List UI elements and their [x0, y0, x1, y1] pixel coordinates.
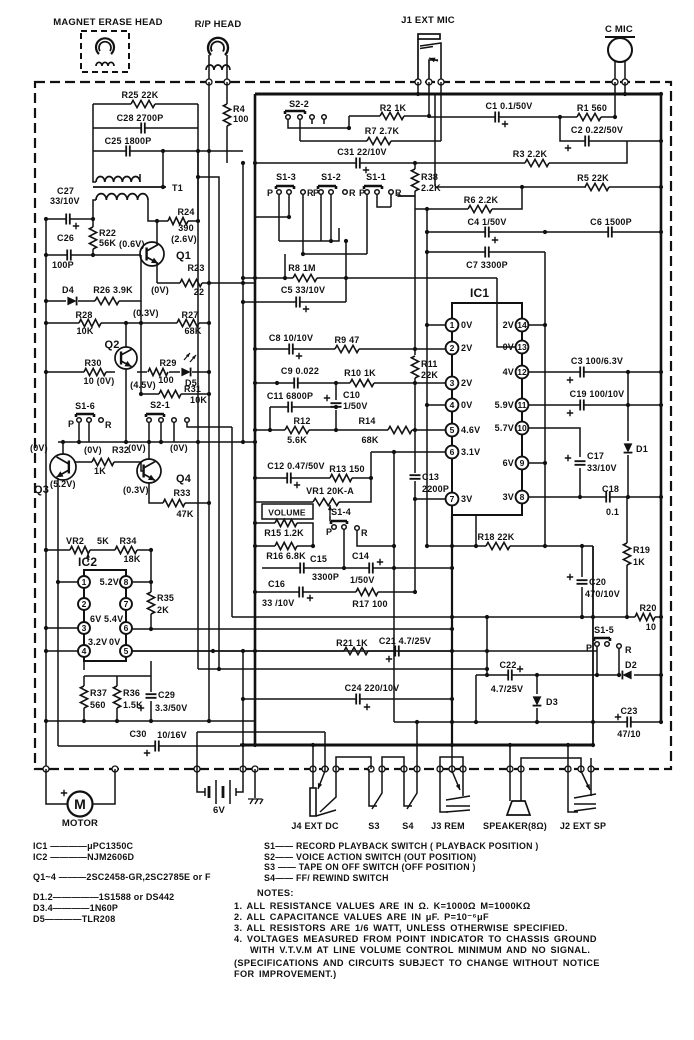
- resistor R20: [635, 613, 655, 620]
- node C20 junctions: [580, 544, 584, 548]
- capacitor C15: [300, 563, 304, 574]
- switch S1-4: [331, 521, 347, 524]
- transformer T1 lower winding: [96, 194, 148, 200]
- pin IC1-13: [516, 341, 529, 354]
- wire R4 lead: [226, 82, 228, 163]
- potentiometer VR1: [313, 498, 339, 505]
- svg-text:R: R: [361, 528, 368, 538]
- wire x219 vertical: [198, 177, 219, 669]
- svg-text:VR2: VR2: [66, 536, 84, 546]
- svg-text:IC2: IC2: [78, 555, 97, 569]
- wire R5 feed: [434, 94, 436, 186]
- node C13 junctions: [413, 497, 417, 501]
- pin IC1-4: [446, 399, 459, 412]
- IC2 box: [84, 570, 126, 661]
- svg-text:R32: R32: [112, 445, 129, 455]
- svg-text:R/P HEAD: R/P HEAD: [195, 19, 242, 30]
- svg-text:11: 11: [518, 400, 527, 410]
- node C26 junctions: [44, 253, 48, 257]
- svg-text:5: 5: [124, 646, 129, 656]
- svg-text:68K: 68K: [184, 326, 201, 336]
- node R18 junctions: [450, 544, 454, 548]
- resistor R2: [380, 112, 404, 119]
- svg-text:1K: 1K: [633, 557, 645, 567]
- svg-text:1K: 1K: [94, 466, 106, 476]
- wire VR1 row: [255, 478, 371, 502]
- wire C11 row: [270, 406, 336, 408]
- wire x427 vertical: [426, 209, 428, 452]
- wire C20 leads: [581, 546, 583, 617]
- capacitor C5: [296, 297, 300, 308]
- pin IC1-12: [516, 366, 529, 379]
- svg-text:3300P: 3300P: [312, 572, 339, 582]
- resistor R9: [335, 345, 359, 352]
- svg-text:6V: 6V: [503, 458, 514, 468]
- ground symbol: [254, 769, 256, 798]
- wire S2-2 wiring: [288, 116, 349, 141]
- microphone C MIC: [605, 36, 635, 38]
- erase head symbol: [96, 38, 114, 54]
- svg-text:Q1: Q1: [176, 250, 191, 262]
- pin IC2-6: [120, 622, 132, 634]
- resistor R30: [84, 368, 106, 375]
- svg-text:2200P: 2200P: [422, 484, 449, 494]
- chassis dashed border: [35, 82, 671, 769]
- node R1 junctions: [558, 115, 562, 119]
- svg-text:R6 2.2K: R6 2.2K: [464, 195, 499, 205]
- svg-text:5.2V: 5.2V: [100, 577, 119, 587]
- node C19 junctions: [659, 403, 663, 407]
- wire C28 row: [93, 127, 198, 129]
- LED D5: [181, 368, 190, 377]
- capacitor C21: [395, 646, 399, 657]
- svg-text:IC1 ————μPC1350C: IC1 ————μPC1350C: [33, 841, 134, 851]
- resistor R7: [367, 137, 391, 144]
- svg-text:P: P: [313, 188, 319, 198]
- wire pin14 feed: [528, 324, 545, 326]
- wire x243 vertical: [242, 163, 244, 769]
- svg-text:R27: R27: [181, 310, 198, 320]
- pin IC1-7: [446, 493, 459, 506]
- wire R7 row: [300, 140, 441, 142]
- wire C25 row: [93, 150, 243, 152]
- wire IC2 pin3 left: [46, 627, 78, 629]
- svg-text:C13: C13: [422, 472, 439, 482]
- node C9 junctions: [253, 381, 257, 385]
- node R31 junctions: [139, 392, 143, 396]
- svg-text:(0V): (0V): [151, 285, 169, 295]
- wire x141 vertical: [140, 301, 142, 394]
- VOLUME box: [262, 504, 313, 519]
- transistor Q4: [137, 459, 161, 483]
- svg-text:C10: C10: [343, 390, 360, 400]
- svg-text:6: 6: [450, 447, 455, 457]
- wire x209 vertical: [208, 151, 210, 721]
- node border crossings C MIC: [612, 79, 618, 85]
- wire J1 ring down: [440, 82, 442, 141]
- svg-text:R30: R30: [84, 358, 101, 368]
- node C3 junctions: [659, 370, 663, 374]
- svg-text:100: 100: [158, 375, 174, 385]
- svg-text:2V: 2V: [461, 343, 472, 353]
- resistor R13: [330, 474, 352, 481]
- node R5 junctions: [659, 185, 663, 189]
- node R12 junctions: [268, 428, 272, 432]
- svg-text:6V: 6V: [90, 614, 101, 624]
- svg-text:68K: 68K: [361, 435, 378, 445]
- svg-text:(SPECIFICATIONS AND CIRCUITS: (SPECIFICATIONS AND CIRCUITS SUBJECT TO …: [234, 958, 600, 968]
- node R20 junctions: [450, 615, 454, 619]
- resistor R28: [79, 319, 101, 326]
- svg-text:C24 220/10V: C24 220/10V: [345, 683, 400, 693]
- wire R1 row: [560, 82, 615, 117]
- node pin4 junction: [425, 403, 429, 407]
- svg-text:R1 560: R1 560: [577, 103, 607, 113]
- magnet erase head box: [81, 31, 129, 72]
- svg-text:(0V): (0V): [128, 443, 146, 453]
- svg-text:C22: C22: [499, 660, 516, 670]
- wire pin13 feed: [497, 278, 522, 347]
- node block bottom junctions: [44, 719, 48, 723]
- svg-text:10: 10: [646, 622, 656, 632]
- wire C2 row: [560, 117, 661, 141]
- wire S1-5 stems: [597, 646, 619, 675]
- node VR2 junctions: [44, 548, 48, 552]
- wire pin10 C17: [528, 428, 580, 457]
- capacitor C31: [356, 158, 360, 169]
- svg-text:7: 7: [450, 494, 455, 504]
- wire R18 row: [427, 515, 593, 546]
- svg-text:10 (0V): 10 (0V): [84, 376, 115, 386]
- resistor R12: [285, 426, 309, 433]
- node R15 junctions: [253, 521, 257, 525]
- svg-text:C15: C15: [310, 554, 327, 564]
- wire R31 row: [141, 393, 209, 395]
- resistor R29: [148, 368, 168, 375]
- capacitor C30: [155, 741, 159, 752]
- wire C16 row: [255, 591, 415, 593]
- svg-text:(0.6V): (0.6V): [119, 239, 145, 249]
- wire R6 row: [415, 187, 522, 209]
- wire C23 row: [394, 721, 661, 723]
- wire D1 vertical: [627, 372, 629, 497]
- wire pin7 feed: [415, 498, 446, 500]
- svg-text:P: P: [326, 527, 332, 537]
- wire C26 row: [46, 254, 141, 256]
- svg-text:R7 2.7K: R7 2.7K: [365, 126, 400, 136]
- switch S4 symbol: [404, 769, 412, 806]
- svg-text:C11 6800P: C11 6800P: [267, 391, 313, 401]
- svg-text:R8 1M: R8 1M: [288, 263, 316, 273]
- svg-text:Q1~4 ———2SC2458-GR,2SC2785E or: Q1~4 ———2SC2458-GR,2SC2785E or F: [33, 872, 211, 882]
- pin IC1-3: [446, 377, 459, 390]
- svg-text:S1-4: S1-4: [331, 507, 351, 517]
- wire x427 lower vertical: [426, 452, 428, 546]
- node border bottom crossings: [43, 766, 49, 772]
- node R23 junctions: [207, 281, 211, 285]
- capacitor C20: [577, 580, 588, 584]
- switch S1-1: [364, 186, 382, 189]
- wire R25 row: [93, 103, 198, 105]
- wire R15 row: [255, 523, 313, 546]
- wire x394 vertical: [393, 452, 395, 722]
- capacitor C25: [126, 146, 130, 157]
- wire VR2 row: [46, 549, 151, 551]
- svg-text:0V: 0V: [461, 320, 472, 330]
- svg-text:R3 2.2K: R3 2.2K: [513, 149, 548, 159]
- svg-text:S1-2: S1-2: [321, 172, 341, 182]
- wire R24 row: [157, 220, 198, 222]
- resistor R6: [468, 205, 492, 212]
- svg-text:8: 8: [124, 577, 129, 587]
- svg-text:4.6V: 4.6V: [461, 425, 480, 435]
- node border crossings J1: [415, 79, 421, 85]
- wire D3 leads: [536, 675, 538, 722]
- pin IC2-3: [78, 622, 90, 634]
- node R21 junctions: [253, 649, 257, 653]
- svg-text:R38: R38: [421, 172, 438, 182]
- svg-text:C6 1500P: C6 1500P: [590, 217, 632, 227]
- wire C3 row: [528, 371, 661, 373]
- svg-text:S3 —— TAPE ON OFF SWITCH (: S3 —— TAPE ON OFF SWITCH (OFF POSITION ): [264, 862, 476, 872]
- svg-text:12: 12: [517, 367, 527, 377]
- resistor R33: [163, 499, 185, 506]
- node R30 junction: [44, 370, 48, 374]
- svg-text:5.9V: 5.9V: [495, 400, 514, 410]
- capacitor C28: [141, 123, 145, 134]
- svg-text:C20: C20: [589, 577, 606, 587]
- node C4 row junctions: [659, 230, 663, 234]
- svg-text:1/50V: 1/50V: [343, 401, 368, 411]
- svg-text:18K: 18K: [123, 554, 140, 564]
- svg-text:R5 22K: R5 22K: [577, 173, 609, 183]
- capacitor C3: [580, 367, 584, 378]
- svg-text:3.2V: 3.2V: [88, 637, 107, 647]
- wire x452 vertical: [451, 515, 453, 745]
- wire C22 D2 row: [476, 674, 661, 676]
- resistor R1: [577, 113, 601, 120]
- jack J4 EXT DC: [310, 788, 316, 816]
- svg-text:D5————TLR208: D5————TLR208: [33, 914, 115, 924]
- R/P head symbol: [208, 38, 228, 55]
- wire D4-R26 row: [46, 255, 141, 301]
- pin IC2-5: [120, 645, 132, 657]
- resistor R36: [113, 686, 120, 708]
- node mesh junctions: [287, 215, 291, 219]
- wire S1-4 stem: [344, 529, 394, 568]
- pin IC1-6: [446, 446, 459, 459]
- svg-text:J2 EXT SP: J2 EXT SP: [560, 821, 606, 831]
- svg-text:S2—— VOICE ACTION SWITCH (OU: S2—— VOICE ACTION SWITCH (OUT POSITION): [264, 852, 476, 862]
- capacitor C17: [575, 461, 586, 465]
- wire main bold bus top: [255, 93, 661, 96]
- svg-text:14: 14: [517, 320, 527, 330]
- jack J2 EXT SP: [568, 769, 578, 812]
- transformer T1 core line: [93, 186, 166, 188]
- node C25 junctions: [161, 149, 165, 153]
- svg-text:S2-2: S2-2: [289, 99, 309, 109]
- svg-text:R23: R23: [187, 263, 204, 273]
- svg-text:S4—— FF/ REWIND SWITCH: S4—— FF/ REWIND SWITCH: [264, 873, 389, 883]
- wire jack bridges: [336, 757, 581, 769]
- svg-text:(0V): (0V): [170, 443, 188, 453]
- resistor R18: [486, 542, 510, 549]
- resistor R38: [411, 169, 418, 191]
- resistor R31: [159, 390, 181, 397]
- svg-text:10K: 10K: [76, 326, 93, 336]
- switch S3 symbol: [369, 769, 377, 806]
- switch S1-3: [276, 186, 294, 189]
- svg-text:10K: 10K: [190, 395, 207, 405]
- switch S2-2: [285, 111, 305, 114]
- svg-text:S1-3: S1-3: [276, 172, 296, 182]
- svg-text:33 /10V: 33 /10V: [262, 598, 294, 608]
- svg-text:4: 4: [82, 646, 87, 656]
- wire IC2 pin4 left: [46, 650, 78, 652]
- node R35 bottom: [149, 627, 153, 631]
- svg-text:R19: R19: [633, 545, 650, 555]
- svg-text:R: R: [625, 645, 632, 655]
- svg-text:R37: R37: [90, 688, 107, 698]
- svg-text:C9 0.022: C9 0.022: [281, 366, 319, 376]
- wire IC2 pin6 row: [132, 628, 452, 630]
- resistor R4: [223, 104, 230, 126]
- resistor R34: [115, 546, 137, 553]
- pin IC1-8: [516, 491, 529, 504]
- svg-text:7: 7: [124, 599, 129, 609]
- svg-text:R22: R22: [99, 228, 116, 238]
- svg-text:R20: R20: [639, 603, 656, 613]
- node left bus dots: [44, 548, 48, 552]
- capacitor C9: [294, 378, 298, 389]
- transistor Q1: [140, 242, 164, 266]
- capacitor C11: [288, 402, 292, 413]
- wire switch mesh: [255, 194, 415, 278]
- resistor R35: [147, 592, 154, 614]
- svg-text:3.3/50V: 3.3/50V: [155, 703, 187, 713]
- svg-text:470/10V: 470/10V: [585, 589, 620, 599]
- svg-text:C12 0.47/50V: C12 0.47/50V: [267, 461, 324, 471]
- svg-text:(0V): (0V): [30, 443, 48, 453]
- svg-text:0.1: 0.1: [606, 507, 619, 517]
- svg-text:2V: 2V: [503, 320, 514, 330]
- pin IC1-1: [446, 319, 459, 332]
- svg-text:WITH V.T.V.M AT LINE VOLUM: WITH V.T.V.M AT LINE VOLUME CONTROL MINI…: [250, 945, 590, 955]
- capacitor C16: [299, 587, 303, 598]
- wire bottom bold bus: [240, 744, 593, 747]
- svg-text:S2-1: S2-1: [150, 400, 170, 410]
- pin IC2-4: [78, 645, 90, 657]
- svg-text:R13 150: R13 150: [329, 464, 364, 474]
- resistor R16: [275, 542, 297, 549]
- wire main bold vertical: [254, 94, 257, 745]
- svg-text:R12: R12: [293, 416, 310, 426]
- svg-text:13: 13: [517, 342, 527, 352]
- node C2 junction: [659, 139, 663, 143]
- svg-text:(0.3V): (0.3V): [123, 485, 149, 495]
- svg-text:J4 EXT DC: J4 EXT DC: [291, 821, 339, 831]
- svg-text:C21 4.7/25V: C21 4.7/25V: [379, 636, 431, 646]
- svg-text:VOLUME: VOLUME: [268, 508, 306, 518]
- capacitor C6: [608, 227, 612, 238]
- svg-text:390: 390: [178, 223, 194, 233]
- svg-text:3: 3: [450, 378, 455, 388]
- svg-text:47K: 47K: [176, 509, 193, 519]
- wire R2 row: [349, 115, 429, 117]
- svg-text:5: 5: [450, 425, 455, 435]
- capacitor C7: [485, 247, 489, 258]
- svg-text:3. ALL RESISTORS ARE 1/6: 3. ALL RESISTORS ARE 1/6 WATT, UNLESS OT…: [234, 923, 568, 933]
- wire Q3 collector: [62, 442, 64, 454]
- wire x198 vertical: [197, 151, 199, 221]
- svg-text:8: 8: [520, 492, 525, 502]
- svg-text:C27: C27: [57, 186, 74, 196]
- svg-text:S1-6: S1-6: [75, 401, 95, 411]
- svg-text:2.2K: 2.2K: [421, 183, 441, 193]
- wire y669 row: [198, 668, 487, 670]
- wire R/P head leads: [209, 55, 227, 82]
- svg-text:6: 6: [124, 623, 129, 633]
- wire C31 row: [255, 141, 627, 163]
- capacitor C8: [289, 344, 293, 355]
- svg-text:C19 100/10V: C19 100/10V: [570, 389, 625, 399]
- svg-text:C1 0.1/50V: C1 0.1/50V: [485, 101, 532, 111]
- wire x593 vertical: [592, 546, 594, 745]
- svg-text:S4: S4: [402, 821, 413, 831]
- svg-text:47/10: 47/10: [617, 729, 641, 739]
- wire pin4 feed: [427, 404, 446, 406]
- svg-text:C4 1/50V: C4 1/50V: [467, 217, 506, 227]
- wire J1 tip down: [428, 82, 430, 116]
- motor M: [68, 792, 93, 817]
- svg-text:D1: D1: [636, 444, 648, 454]
- resistor R17: [356, 588, 378, 595]
- svg-text:R24: R24: [177, 207, 194, 217]
- jack J3 REM: [440, 769, 448, 812]
- wire C MIC to bus: [624, 82, 626, 94]
- svg-text:100P: 100P: [52, 260, 74, 270]
- svg-text:(2.6V): (2.6V): [171, 234, 197, 244]
- svg-text:0V: 0V: [503, 342, 514, 352]
- svg-text:10/16V: 10/16V: [157, 730, 187, 740]
- resistor R19: [623, 543, 630, 565]
- wire IC2 pin5 row: [132, 650, 453, 652]
- wire R37 block bottom: [46, 701, 255, 721]
- resistor R5: [585, 183, 609, 190]
- wire pin6 feed: [371, 452, 446, 478]
- svg-text:P: P: [68, 419, 74, 429]
- wire C19 row: [528, 404, 661, 406]
- resistor R11: [411, 356, 418, 378]
- svg-text:9: 9: [520, 458, 525, 468]
- svg-text:C7 3300P: C7 3300P: [466, 260, 508, 270]
- wire R11 leads: [414, 378, 416, 473]
- resistor R22: [89, 227, 96, 249]
- svg-text:2K: 2K: [157, 605, 169, 615]
- wire jack verticals to bus: [313, 745, 591, 769]
- node bottom bus junctions: [241, 743, 245, 747]
- capacitor C23: [627, 717, 631, 728]
- svg-text:P: P: [359, 188, 365, 198]
- svg-text:MAGNET ERASE HEAD: MAGNET ERASE HEAD: [53, 17, 163, 28]
- wire pin1 feed: [427, 324, 446, 326]
- svg-text:P: P: [267, 188, 273, 198]
- svg-text:3V: 3V: [461, 494, 472, 504]
- capacitor C12: [287, 473, 291, 484]
- diode D2: [622, 671, 631, 680]
- switch S1-2: [318, 186, 336, 189]
- node R8 junctions: [241, 276, 245, 280]
